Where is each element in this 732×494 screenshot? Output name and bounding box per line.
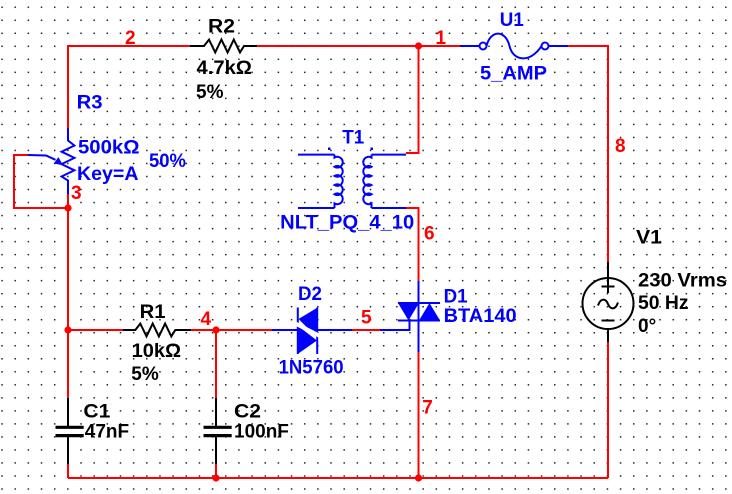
wire bottom rail [68,477,608,479]
svg-text:U1: U1 [500,10,524,31]
svg-text:0°: 0° [638,316,656,337]
svg-text:47nF: 47nF [85,421,129,442]
diac D2 lead left [272,329,298,331]
wire left rail bottom below C1 [67,464,69,478]
source V1 plus [602,286,615,288]
resistor R2 [190,40,257,53]
junction left rail R1 row [64,326,71,333]
potentiometer R3 wiper arrow [28,155,56,160]
wire top rail right (fuse to V1, node 8) [568,46,608,262]
wire R1 to D2 (node 4) [191,329,272,331]
svg-text:5%: 5% [131,364,159,385]
fuse U1 [460,45,480,47]
transformer T1 primary lead top [298,154,335,156]
svg-text:4: 4 [201,309,212,330]
svg-text:R2: R2 [208,17,235,38]
source V1 minus [602,320,615,322]
source V1 lead bottom [607,329,609,342]
diac D2 white slash [296,324,320,336]
svg-text:8: 8 [615,136,626,157]
svg-text:3: 3 [71,183,82,204]
svg-text:2: 2 [125,28,136,49]
wire node 4 down to C2 [215,330,217,398]
wire triac bottom to bottom rail (node 7) [418,352,420,478]
svg-text:50%: 50% [149,151,186,172]
svg-text:D1: D1 [444,287,468,308]
svg-text:C2: C2 [234,402,261,423]
svg-text:Key=A: Key=A [77,164,139,185]
wire node 1 down to T1 secondary top [406,46,419,153]
diac D2 bar right [316,308,318,355]
svg-text:50 Hz: 50 Hz [638,293,689,314]
wire D2 to triac gate (node 5) [352,329,380,331]
junction bottom rail triac [415,474,422,481]
svg-text:10kΩ: 10kΩ [132,341,182,362]
potentiometer R3 body [62,128,75,194]
svg-text:5%: 5% [196,82,224,103]
junction node 1 [415,42,422,49]
wire T1 secondary bottom down to triac (node 6) [406,208,419,281]
diac D2 lead right [317,329,352,331]
svg-text:230 Vrms: 230 Vrms [638,271,727,292]
diac D2 triangle top [299,308,318,338]
source V1 sine [598,300,618,309]
junction pot loop node 3 [64,204,71,211]
svg-text:D2: D2 [298,284,322,305]
junction bottom rail C2 [212,474,219,481]
transformer T1 primary polarity dot [328,148,331,151]
transformer T1 secondary polarity dot [371,148,374,151]
svg-text:R3: R3 [77,92,103,113]
triac D1 gate lead [380,321,410,331]
svg-text:6: 6 [424,224,435,245]
svg-text:5_AMP: 5_AMP [480,64,547,85]
svg-text:V1: V1 [636,227,662,248]
wire pot wiper loop [14,155,68,208]
triac D1 right triangle [419,303,440,321]
triac D1 bottom bar [398,320,440,322]
svg-text:4.7kΩ: 4.7kΩ [197,58,253,79]
source V1 circle [583,278,634,329]
capacitor C2 [215,398,217,426]
svg-text:100nF: 100nF [234,421,289,442]
transformer T1 primary winding [335,155,343,208]
svg-text:NLT_PQ_4_10: NLT_PQ_4_10 [280,213,414,234]
triac D1 top bar [398,302,440,304]
wire R1 row left segment [68,329,123,331]
resistor R1 [123,324,191,337]
transformer T1 secondary lead top [372,154,407,156]
svg-text:5: 5 [361,308,372,329]
svg-text:R1: R1 [140,302,166,323]
wire top rail left (node 2) [68,46,190,128]
diac D2 bar left [297,308,299,355]
svg-text:C1: C1 [83,402,110,423]
triac D1 main vertical [418,281,420,352]
wire left rail middle (node 3) [67,194,69,398]
capacitor C1 [67,398,69,426]
triac D1 left triangle [398,303,419,321]
svg-text:1N5760: 1N5760 [279,358,344,379]
transformer T1 primary lead bottom [298,207,335,209]
svg-text:1: 1 [436,28,447,49]
source V1 lead top [607,262,609,293]
diac D2 triangle bottom [298,326,317,354]
svg-text:7: 7 [422,398,433,419]
svg-text:T1: T1 [342,128,364,149]
svg-text:500kΩ: 500kΩ [78,138,140,159]
wire V1 bottom to bottom rail [607,342,609,478]
transformer T1 secondary lead bottom [372,207,407,209]
wire C2 bottom to bottom rail [215,464,217,478]
transformer T1 secondary winding [363,155,371,208]
junction node 4 [212,326,219,333]
svg-text:BTA140: BTA140 [444,306,517,327]
wire top rail middle (R2 to node 1) [257,45,460,47]
